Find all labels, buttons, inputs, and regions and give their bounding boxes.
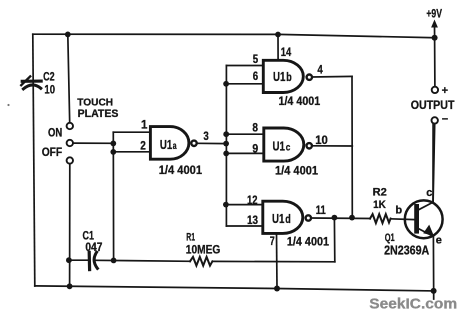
transistor Q1 circle (405, 200, 443, 238)
svg-text:U1: U1 (272, 211, 284, 226)
svg-text:6: 6 (253, 71, 258, 83)
svg-text:R2: R2 (373, 187, 387, 199)
wire OFF line to C1 (69, 259, 88, 261)
svg-text:U1: U1 (160, 137, 172, 152)
svg-text:12: 12 (247, 195, 258, 207)
svg-text:10: 10 (44, 83, 55, 97)
svg-text:OFF: OFF (42, 145, 63, 159)
svg-text:b: b (395, 205, 402, 217)
svg-text:14: 14 (281, 47, 292, 59)
node junction node3 / pin9 (223, 151, 229, 157)
gate U1d bubble (306, 215, 311, 220)
gate U1d body (263, 201, 303, 233)
transistor Q1 emitter arrow (423, 225, 434, 236)
svg-text:1/4 4001: 1/4 4001 (287, 235, 330, 249)
svg-text:+: + (442, 85, 448, 97)
wire input node vertical (112, 132, 114, 260)
node junction input node / C1-R1 wire (111, 258, 117, 264)
svg-text:+9V: +9V (426, 6, 442, 20)
transistor Q1 base bar (414, 206, 419, 231)
node junction node3 / pin8 (223, 131, 229, 137)
wire U1b output pin4 (312, 75, 352, 78)
svg-text:1/4 4001: 1/4 4001 (159, 163, 203, 177)
wire ON plate vertical (68, 34, 70, 122)
terminal touch plate middle circle (67, 140, 73, 146)
wire U1a output to node 3 (197, 142, 226, 144)
wire U1d pin12 (226, 204, 263, 206)
terminal output plus (432, 87, 438, 93)
svg-text:10MEG: 10MEG (186, 242, 221, 256)
svg-text:7: 7 (270, 236, 275, 248)
node junction top rail / ON plate (65, 32, 71, 38)
gate U1b bubble (307, 75, 312, 80)
node junction node3 / pin12 (223, 202, 229, 208)
capacitor C1 (89, 252, 97, 269)
svg-text:3: 3 (203, 131, 208, 143)
terminal touch plate ON (top circle) (67, 123, 73, 129)
wire U1d pin7 to ground (276, 233, 279, 288)
svg-text:4: 4 (317, 65, 323, 77)
svg-text:1K: 1K (373, 199, 387, 211)
gate U1c body (264, 128, 304, 161)
terminal output minus (432, 117, 438, 123)
gate U1c bubble (307, 143, 312, 148)
svg-text:C2: C2 (43, 69, 55, 83)
svg-text:b: b (286, 72, 292, 84)
wire minus terminal to collector (433, 124, 435, 202)
scan speck (7, 104, 9, 106)
node junction node3 / pin6 (223, 81, 229, 87)
node junction +9V / rail / output (432, 35, 438, 41)
gate U1a body (150, 127, 189, 160)
svg-text:8: 8 (252, 123, 258, 135)
svg-text:d: d (285, 214, 291, 226)
node junction OFF line / ground rail (67, 283, 73, 289)
wire U1b pin14 vertical (277, 35, 279, 61)
wire middle plate to input node (73, 142, 113, 144)
wire +9V arrow stem (434, 25, 436, 38)
resistor R1 (190, 257, 212, 266)
wire left vertical rail (33, 34, 35, 286)
svg-text:1: 1 (141, 119, 148, 131)
wire bottom ground rail (35, 286, 434, 291)
node junction pin11 / pins4-10 join (349, 215, 355, 221)
wire U1a pin1 (113, 131, 150, 133)
wire rail to + output terminal (434, 38, 436, 86)
node junction pin7 / ground rail (274, 286, 280, 292)
svg-text:U1: U1 (273, 69, 285, 84)
svg-text:13: 13 (247, 215, 258, 227)
svg-text:c: c (426, 187, 432, 199)
svg-text:047: 047 (85, 242, 102, 254)
svg-text:C1: C1 (83, 230, 95, 242)
wire OFF plate vertical down to ground (69, 164, 71, 287)
svg-text:1/4 4001: 1/4 4001 (275, 164, 318, 178)
resistor R2 (370, 214, 391, 223)
node junction OFF line / C1 wire (66, 257, 72, 263)
wire U1c output pin10 (312, 145, 352, 147)
node junction node3 / U1a out (223, 141, 229, 147)
node junction pin11 / R1 feedback (332, 215, 338, 221)
wire U1d output pin11 (311, 217, 370, 220)
svg-text:a: a (173, 140, 177, 152)
node junction pin14 / +9V rail (275, 32, 281, 38)
svg-text:U1: U1 (273, 139, 285, 154)
capacitor C2 (21, 76, 41, 89)
svg-text:OUTPUT: OUTPUT (411, 100, 455, 112)
wire C1 to R1 (95, 260, 190, 261)
svg-text:c: c (286, 142, 291, 154)
terminal touch plate OFF (bottom circle) (67, 157, 73, 163)
wire top +9V rail (33, 34, 435, 38)
svg-text:2N2369A: 2N2369A (384, 243, 429, 258)
svg-text:ON: ON (48, 128, 62, 140)
svg-text:11: 11 (316, 205, 326, 217)
wire U1a pin2 (113, 151, 150, 153)
node junction input node / plate wire (110, 141, 116, 147)
wire pins 4/10 vertical join (351, 76, 353, 217)
power arrow +9V (431, 20, 438, 28)
wire R2 to base (391, 218, 415, 221)
svg-text:PLATES: PLATES (78, 108, 119, 120)
wire R1 to pin11 node (212, 260, 334, 262)
node junction emitter / ground rail (431, 288, 437, 294)
node junction input node / pin2 (110, 149, 116, 155)
wire U1b pin6 (226, 83, 263, 85)
wire U1d pin13 (226, 225, 262, 227)
svg-text:SeekIC.com: SeekIC.com (369, 297, 457, 313)
gate U1a bubble (191, 141, 196, 146)
transistor Q1 collector lead (419, 124, 434, 210)
wire U1c pin8 (226, 133, 263, 135)
transistor Q1 emitter lead (419, 229, 434, 299)
wire U1c pin9 (226, 152, 263, 154)
svg-text:e: e (436, 234, 442, 246)
svg-text:5: 5 (253, 54, 259, 66)
svg-text:1/4 4001: 1/4 4001 (279, 94, 321, 108)
svg-text:2: 2 (140, 140, 146, 152)
svg-text:−: − (442, 114, 448, 126)
svg-text:TOUCH: TOUCH (77, 98, 113, 109)
gate U1b body (263, 60, 303, 92)
wire U1b pin5 (226, 65, 263, 67)
wire pin11 down to R1 (333, 218, 335, 262)
svg-text:9: 9 (252, 143, 258, 155)
wire node 3 vertical (225, 66, 227, 227)
